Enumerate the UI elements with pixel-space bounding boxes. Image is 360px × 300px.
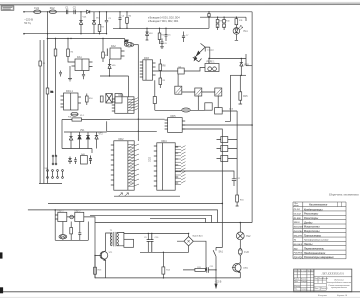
IC DD3 [143, 60, 153, 80]
capacitor C15 [150, 233, 153, 252]
capacitor C17 [59, 71, 62, 77]
chip output wires right [182, 124, 252, 126]
gate DD4.1 [221, 137, 228, 143]
wire bottom right [183, 269, 216, 271]
gate DD4.3 [221, 156, 228, 162]
wire y132 [64, 131, 107, 133]
svg-text:РЕЛЕ 1: РЕЛЕ 1 [207, 62, 216, 64]
svg-text:Масшт.: Масшт. [323, 278, 329, 280]
contact K1.1 [71, 112, 78, 116]
op-amp DA2.2 [75, 212, 84, 221]
svg-text:DD4: DD4 [162, 140, 168, 143]
svg-text:DD2: DD2 [119, 138, 125, 141]
wire x230 [225, 75, 230, 121]
capacitor C1 [66, 10, 67, 15]
svg-text:Микросхемы: Микросхемы [304, 226, 321, 229]
bus return A [48, 202, 222, 204]
svg-text:50 Гц: 50 Гц [24, 21, 31, 25]
IC DD1 [115, 97, 134, 114]
output arrow [215, 284, 217, 288]
resistor R20 [195, 268, 206, 271]
gate DD4.2 [221, 146, 228, 152]
diode VD5 [108, 59, 111, 76]
sheet bottom border [0, 291, 360, 293]
hatched box A2 [195, 88, 202, 96]
wire N (mains neutral) [24, 33, 107, 35]
svg-text:Диоды: Диоды [303, 221, 313, 224]
svg-text:Пров.: Пров. [294, 281, 299, 283]
relay oval K1 [182, 108, 190, 112]
svg-text:Дата: Дата [310, 270, 315, 272]
resistor R7 [102, 39, 104, 63]
svg-text:DA1: DA1 [77, 56, 82, 59]
wire x128.5 [128, 76, 130, 97]
title block main divider [313, 269, 315, 292]
svg-text:DD3: DD3 [144, 57, 149, 60]
wire y119 [110, 118, 165, 120]
capacitor C7 [182, 32, 185, 43]
title block device name [327, 280, 352, 290]
comparator DD1.1 [64, 93, 79, 110]
LED HL1 [233, 28, 240, 35]
DD4 pin field right [175, 146, 181, 184]
title block outer frame [294, 269, 352, 292]
svg-text:Листов 1: Листов 1 [320, 288, 328, 290]
svg-text:принципиальная: принципиальная [331, 287, 348, 289]
misc small designator labels [43, 16, 245, 272]
IC DD5 [168, 118, 183, 133]
svg-text:DD5: DD5 [171, 115, 177, 118]
svg-text:FU3: FU3 [244, 252, 249, 254]
svg-text:Микросхемы: Микросхемы [304, 230, 321, 233]
svg-text:HL2: HL2 [246, 236, 251, 238]
title block right dividers [314, 276, 352, 278]
resistor R12 [217, 17, 219, 30]
svg-text:−22 B: −22 B [215, 279, 222, 283]
capacitor C12 [232, 172, 236, 186]
wire y65.7 right [234, 65, 242, 67]
capacitor C13 [78, 222, 81, 241]
osc feed wire [55, 210, 88, 240]
IC DD2 [114, 141, 134, 190]
svg-text:Копировал: Копировал [317, 295, 327, 297]
capacitor C6 with ground [160, 39, 164, 49]
wire below chips [114, 195, 180, 197]
hatched box A3 [215, 88, 222, 96]
bridge rectifier VD9 [184, 237, 193, 246]
resistor R9 [159, 76, 161, 88]
svg-text:Транзисторы: Транзисторы [304, 234, 322, 237]
diode VD8 [240, 59, 243, 76]
resistor R18 [94, 255, 96, 278]
svg-text:Переключатель: Переключатель [304, 248, 325, 251]
capacitor C5 [165, 28, 168, 41]
title block left grid rows [294, 272, 314, 290]
wire x138 [137, 93, 139, 141]
svg-text:DA2: DA2 [111, 45, 116, 48]
relay K2 [205, 64, 219, 72]
sheet top border [0, 3, 360, 5]
bridge output wire [193, 241, 206, 270]
svg-text:ЛХ5.ХХХХХХ.031: ЛХ5.ХХХХХХ.031 [321, 271, 345, 275]
wire L (mains phase) [24, 11, 252, 13]
quartz ZQ1 [125, 43, 134, 47]
connector pins XP1 [53, 157, 56, 164]
svg-text:t перег: t перег [207, 49, 214, 52]
wire y110 [155, 109, 205, 111]
edge mark left middle [0, 252, 3, 258]
lamp HL2 [239, 223, 241, 233]
zener VD10 [146, 28, 149, 40]
transistor VT2 [95, 132, 98, 144]
supply rail wire [113, 27, 209, 29]
svg-text:HL1: HL1 [244, 31, 249, 33]
svg-text:Формат А4: Формат А4 [337, 294, 347, 297]
right edge wire x252 [251, 12, 253, 223]
coupler box U2 [178, 68, 184, 74]
resistor R10 [86, 94, 88, 106]
quartz ZQ2 [59, 235, 67, 239]
resistor R17 [70, 222, 72, 241]
arrow tap 2 [125, 193, 129, 196]
transistor VT1 [100, 252, 108, 260]
svg-text:Н.контр.: Н.контр. [294, 286, 301, 288]
svg-text:VS1: VS1 [80, 130, 85, 132]
svg-text:Резонаторы кварцевые: Резонаторы кварцевые [304, 256, 334, 259]
wire top tap y17.2 [200, 16, 246, 18]
wire x237 [222, 111, 237, 195]
wire row y92 [182, 91, 215, 93]
op-amp DA1 [75, 59, 89, 71]
crossed box S1 [106, 94, 113, 104]
bus return B [28, 210, 218, 223]
svg-text:Утв.: Утв. [294, 289, 298, 291]
svg-text:Лампы: Лампы [303, 243, 313, 246]
svg-text:FU2: FU2 [50, 6, 55, 10]
svg-text:DD1-DD4: DD1-DD4 [294, 226, 304, 229]
resistor R13 [223, 17, 225, 30]
wire oval link [125, 39, 139, 94]
resistor R15 [239, 75, 243, 104]
IC DD4 [157, 143, 175, 190]
svg-text:DD1: DD1 [119, 94, 125, 97]
output box XS2 [124, 239, 134, 247]
svg-text:C1-C4: C1-C4 [294, 208, 301, 211]
svg-text:к Выводам 14 DD1, DD2, DD4: к Выводам 14 DD1, DD2, DD4 [148, 18, 180, 20]
transistor VT4 [193, 57, 202, 62]
capacitor C8 [82, 71, 85, 80]
wire y76 [100, 75, 129, 77]
svg-text:КЦ405 А01: КЦ405 А01 [193, 234, 204, 237]
wire x62 [61, 120, 63, 149]
svg-text:Резисторы: Резисторы [304, 217, 319, 220]
capacitor C3 [105, 12, 108, 34]
capacitor C2 [74, 10, 75, 15]
box A4 [205, 103, 212, 110]
resistor R5 [159, 28, 161, 44]
connector XS1 pins [48, 171, 63, 177]
box DA3 [81, 156, 88, 165]
svg-text:Конденсаторы: Конденсаторы [304, 208, 324, 211]
bus wire x47.5 [47, 12, 49, 184]
svg-text:FU1: FU1 [34, 6, 39, 10]
wire y119.5 [62, 119, 110, 121]
wire x55.5 [55, 39, 57, 157]
table header text [293, 203, 335, 259]
svg-text:Предохранители: Предохранители [304, 252, 326, 255]
resistor R14 [235, 17, 237, 27]
title block left grid columns [297, 269, 310, 292]
svg-text:DD1.1: DD1.1 [66, 90, 73, 93]
bus bottom tie wire [39, 183, 62, 185]
svg-text:Иванов: Иванов [301, 279, 306, 281]
wire row y38.5 [48, 38, 125, 40]
arrow tap 1 [119, 193, 123, 196]
converter box outline [95, 222, 252, 224]
svg-text:бесперебойного питания: бесперебойного питания [327, 281, 352, 284]
wire y58.5 [209, 17, 247, 65]
resistor R4 [126, 12, 128, 29]
diode VD2 series on wire L [87, 10, 90, 13]
capacitor C10 [74, 157, 77, 164]
resistor R6 [54, 49, 57, 56]
regulator DA2 [110, 48, 121, 59]
bus wire x40 [39, 40, 41, 184]
zener VD3 [92, 12, 95, 34]
diode VD7 [68, 157, 71, 165]
capacitor C4 [119, 12, 122, 29]
op-amp DA2.1 [58, 212, 67, 221]
svg-text:Разраб.: Разраб. [294, 279, 300, 281]
resistor R19 [162, 252, 164, 278]
svg-text:Перечень элементов: Перечень элементов [328, 192, 359, 196]
long wire x222 down [216, 176, 222, 247]
svg-text:DA2.2: DA2.2 [75, 209, 82, 212]
svg-text:Резисторы: Резисторы [304, 213, 319, 216]
thyristor VS3 [86, 132, 89, 144]
svg-text:DD2: DD2 [149, 156, 152, 162]
capacitor C11 [89, 156, 92, 165]
hatched box A1 [175, 86, 182, 94]
svg-text:Трансформатор силовой: Трансформатор силовой [304, 239, 329, 242]
resistor R11 [72, 118, 82, 121]
svg-text:VT3: VT3 [243, 268, 248, 270]
bus return D [150, 218, 206, 222]
box C18 [154, 80, 156, 110]
bus return C [90, 215, 212, 222]
resistor R1 [39, 61, 42, 66]
svg-text:Изм: Изм [294, 270, 297, 272]
fuse FU2 [49, 10, 56, 14]
svg-text:VT1-VT5: VT1-VT5 [294, 235, 303, 237]
svg-text:Поз.: Поз. [295, 203, 299, 205]
wire y131 [107, 130, 157, 132]
box C9 [100, 96, 103, 102]
triac VS4 [196, 43, 210, 58]
box link stubs [178, 74, 218, 110]
wire y252.3 [140, 251, 189, 253]
edge mark bottom left [0, 287, 3, 293]
diode VD1 (L to N) [79, 12, 82, 34]
box A5 [215, 108, 223, 114]
wire y233.4 [124, 232, 189, 234]
svg-text:к Выводам 7 DD1, DD2, DD4: к Выводам 7 DD1, DD2, DD4 [148, 21, 179, 23]
svg-text:HL1-HL2: HL1-HL2 [294, 244, 303, 246]
ground [68, 66, 72, 81]
resistor R16 [236, 202, 239, 206]
wire y144 [62, 144, 97, 153]
stamp box top-left [1, 6, 14, 10]
resistor R3 [99, 12, 101, 34]
fuse FU3 [238, 249, 242, 256]
svg-text:R15: R15 [243, 96, 248, 98]
transistor VT5 [70, 215, 74, 219]
svg-text:Наименование: Наименование [309, 203, 328, 206]
transistor VT3 [233, 264, 241, 272]
svg-text:SA1: SA1 [219, 251, 224, 254]
capacitor C14 [147, 233, 150, 252]
resistor R2 [46, 88, 49, 94]
svg-text:VT2: VT2 [99, 134, 104, 136]
resistor R21 [68, 39, 75, 63]
thyristor VS2 [78, 132, 81, 144]
svg-text:FU1-FU3: FU1-FU3 [294, 253, 303, 255]
svg-text:R1-R26: R1-R26 [294, 218, 302, 220]
svg-text:Петров: Петров [301, 281, 307, 283]
wire y75.3 [230, 74, 246, 76]
title block left labels [294, 269, 329, 290]
thyristor VS1 [69, 132, 73, 144]
resistor R8 [159, 59, 161, 76]
capacitor C16 [207, 267, 209, 272]
fuse FU1 [34, 10, 41, 14]
svg-text:Лист: Лист [314, 288, 320, 290]
svg-text:VD1-9: VD1-9 [294, 222, 301, 224]
box A6 [115, 94, 122, 104]
svg-text:VD8: VD8 [244, 64, 249, 66]
transformer T1 [106, 233, 112, 244]
switch SA1 [213, 247, 216, 284]
svg-text:C5-C12: C5-C12 [294, 214, 302, 216]
parts table grid [293, 202, 346, 259]
svg-text:DA1-DA2: DA1-DA2 [294, 231, 304, 233]
svg-text:DA2.1: DA2.1 [58, 209, 65, 212]
bus wire x44 [43, 40, 45, 184]
svg-text:ZQ1-ZQ2: ZQ1-ZQ2 [293, 257, 304, 259]
